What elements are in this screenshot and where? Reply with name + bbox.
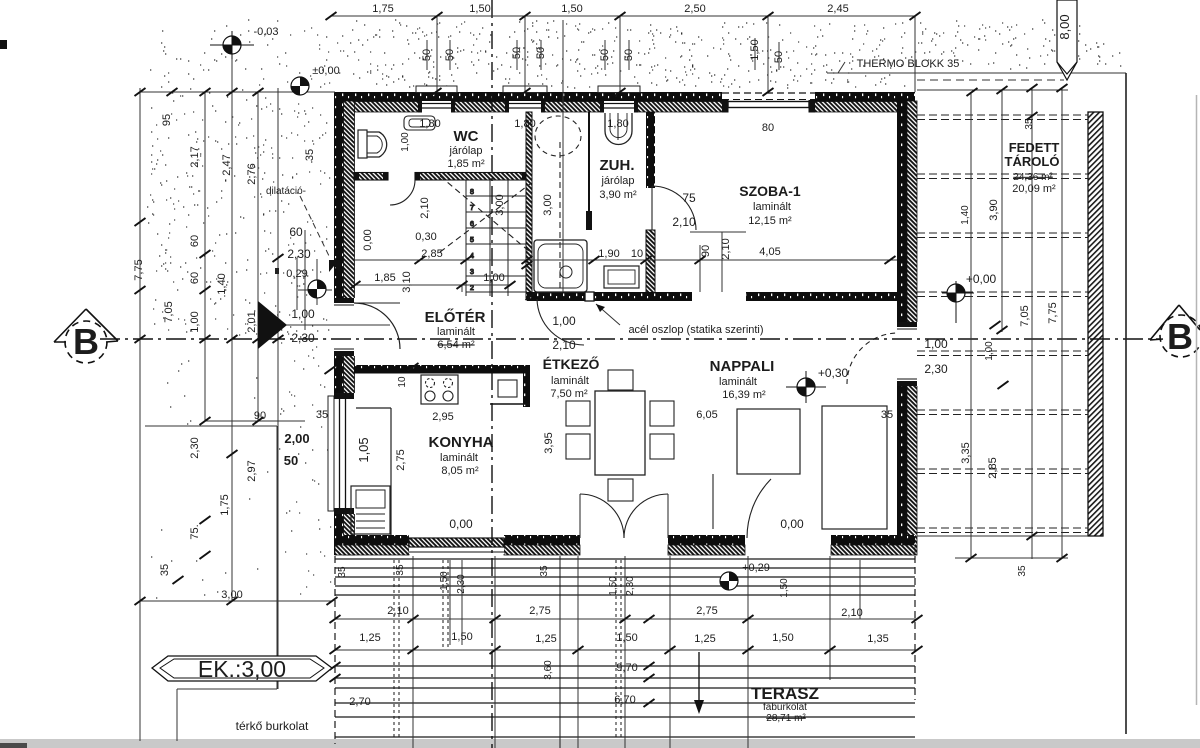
dining table (595, 391, 645, 475)
section axis B-B dash-dot (100, 338, 1160, 340)
svg-text:1,50: 1,50 (451, 631, 472, 643)
big entrance triangle (258, 301, 287, 349)
svg-text:1,85: 1,85 (374, 272, 395, 284)
storage pillar right hatched (1088, 112, 1103, 536)
storage joist dashed double lines (917, 115, 1088, 533)
svg-text:2,75: 2,75 (529, 605, 550, 617)
kitchen window left wall (328, 393, 355, 514)
svg-text:0,00: 0,00 (780, 517, 804, 531)
window W5 bottom wall (parapet) (409, 536, 504, 554)
svg-text:2,70: 2,70 (349, 696, 370, 708)
svg-text:8,00: 8,00 (1057, 14, 1072, 39)
svg-text:35: 35 (1017, 565, 1028, 577)
svg-text:1,00: 1,00 (400, 132, 411, 152)
small 50 dims witness (426, 40, 428, 70)
wall: right exterior (897, 92, 907, 555)
svg-text:7,05: 7,05 (1019, 305, 1031, 326)
ZUH washbasin top (605, 113, 632, 145)
svg-text:2,97: 2,97 (246, 460, 258, 481)
svg-text:-0,03: -0,03 (253, 26, 278, 38)
svg-text:1,50: 1,50 (439, 571, 450, 591)
svg-text:35: 35 (304, 149, 316, 161)
storage top/bottom edge (827, 72, 1126, 74)
tick marks (135, 12, 1068, 707)
svg-text:acél oszlop (statika szerinti): acél oszlop (statika szerinti) (628, 324, 763, 336)
svg-text:28,71 m²: 28,71 m² (766, 713, 806, 724)
svg-text:35: 35 (539, 565, 550, 577)
left step boundary (145, 425, 277, 427)
svg-text:1,50: 1,50 (561, 3, 582, 15)
svg-text:9,70: 9,70 (616, 662, 637, 674)
svg-text:8: 8 (470, 189, 474, 196)
svg-text:2,30: 2,30 (287, 247, 311, 261)
svg-text:50: 50 (599, 49, 611, 61)
svg-text:+0,00: +0,00 (966, 272, 997, 286)
window W2 top wall (503, 86, 547, 113)
svg-text:0,00: 0,00 (449, 517, 473, 531)
svg-text:járólap: járólap (448, 145, 482, 157)
left edge black tick (0, 40, 7, 49)
svg-text:1,00: 1,00 (189, 311, 201, 332)
svg-text:THERMO BLOKK 35: THERMO BLOKK 35 (857, 58, 960, 70)
stair treads (466, 180, 526, 296)
svg-text:EK.:3,00: EK.:3,00 (198, 656, 286, 682)
terrace witness verticals (412, 556, 414, 748)
svg-text:4,05: 4,05 (759, 246, 780, 258)
svg-text:2,45: 2,45 (827, 3, 848, 15)
interior wall: WC right / stair enclosure x526 (526, 112, 532, 298)
svg-text:2,30: 2,30 (456, 574, 467, 594)
entrance door leaf+arc (354, 303, 400, 349)
svg-text:térkő burkolat: térkő burkolat (236, 719, 309, 733)
svg-text:1,05: 1,05 (356, 437, 371, 462)
svg-text:B: B (73, 321, 99, 362)
door W7 arc (747, 479, 771, 538)
svg-text:2,50: 2,50 (684, 3, 705, 15)
svg-text:75.: 75. (189, 524, 201, 539)
svg-text:12,15 m²: 12,15 m² (748, 215, 792, 227)
svg-text:1,00: 1,00 (483, 272, 504, 284)
svg-text:1,40: 1,40 (960, 205, 971, 225)
svg-text:20,09 m²: 20,09 m² (1012, 183, 1056, 195)
top-left horizontal dim (140, 91, 335, 93)
svg-text:0,29: 0,29 (286, 268, 307, 280)
svg-text:laminált: laminált (551, 375, 589, 387)
svg-text:35: 35 (395, 564, 406, 576)
svg-text:90: 90 (700, 245, 712, 257)
svg-text:2,30: 2,30 (625, 576, 636, 596)
thermo blokk leader (838, 62, 845, 73)
kitchen counter edge (390, 408, 392, 535)
svg-text:1,35: 1,35 (867, 633, 888, 645)
svg-text:faburkolat: faburkolat (763, 702, 807, 713)
right door dashed swing arc (847, 333, 898, 384)
svg-text:2,01: 2,01 (246, 311, 258, 332)
svg-text:3,90 m²: 3,90 m² (599, 189, 637, 201)
svg-text:ÉTKEZŐ: ÉTKEZŐ (543, 355, 600, 372)
FEDETT TAROLO structure (917, 112, 1103, 536)
svg-text:2,30: 2,30 (291, 331, 315, 345)
B symbol right (1150, 305, 1200, 357)
bottom-left dark watermark (0, 743, 27, 748)
svg-text:3,95: 3,95 (543, 432, 555, 453)
svg-text:80: 80 (762, 122, 774, 134)
svg-text:2,10: 2,10 (387, 605, 408, 617)
terrace boundary dashed verticals (334, 556, 336, 744)
svg-text:7,05: 7,05 (163, 301, 175, 322)
interior wall: hall/nappali south wall y292 (527, 292, 897, 301)
level markers (210, 31, 974, 590)
svg-text:95: 95 (161, 114, 173, 126)
svg-text:NAPPALI: NAPPALI (710, 358, 775, 375)
svg-text:2,85: 2,85 (421, 248, 442, 260)
entrance witness (296, 258, 298, 310)
right side dimension verticals (827, 73, 1126, 734)
svg-text:2,75: 2,75 (395, 449, 407, 470)
interior wall: ZUH left partition (588, 112, 590, 230)
wall: top exterior black course (335, 92, 915, 102)
door 75/2,10 leaf+arc into SZOBA-1 (651, 186, 653, 230)
svg-text:3,90: 3,90 (988, 199, 1000, 220)
terrace deck lines (335, 556, 915, 748)
svg-text:16,39 m²: 16,39 m² (722, 389, 766, 401)
svg-text:KONYHA: KONYHA (428, 434, 493, 451)
svg-text:1,25: 1,25 (359, 632, 380, 644)
svg-text:1,80: 1,80 (419, 118, 440, 130)
hall/shower door arc (537, 299, 584, 345)
entrance door opening left wall (333, 298, 355, 356)
steel column (585, 292, 594, 301)
nappali sofa (822, 406, 887, 529)
svg-text:1,00: 1,00 (924, 337, 948, 351)
svg-text:2,76: 2,76 (246, 163, 258, 184)
svg-text:laminált: laminált (753, 201, 791, 213)
svg-text:50: 50 (444, 49, 456, 61)
WC toilet (358, 130, 367, 158)
room labels (198, 58, 1060, 733)
interior dim lines (335, 232, 917, 748)
svg-text:35: 35 (316, 409, 328, 421)
dashed overhead line (559, 142, 561, 290)
MAIN CONTENT (328, 86, 918, 555)
svg-text:1,25: 1,25 (535, 633, 556, 645)
interior wall: WC/stair south wall y172 (354, 173, 527, 181)
interior wall stub konyha/etkezo x524 (523, 373, 530, 407)
WC door arc (390, 180, 415, 205)
svg-text:+0,30: +0,30 (818, 366, 849, 380)
nappali cabinet (737, 409, 800, 474)
svg-text:2,75: 2,75 (696, 605, 717, 617)
chairs (566, 401, 590, 426)
90 dim (205, 420, 305, 422)
left dimension verticals (140, 45, 390, 741)
svg-text:1,50: 1,50 (608, 576, 619, 596)
svg-text:50: 50 (535, 47, 547, 59)
svg-text:2,10: 2,10 (720, 238, 732, 259)
svg-text:24,36 m²: 24,36 m² (1013, 172, 1053, 183)
top dimension line (331, 16, 916, 292)
svg-text:50: 50 (623, 49, 635, 61)
svg-text:35: 35 (159, 564, 171, 576)
EK banner (152, 656, 332, 681)
svg-text:6,05: 6,05 (696, 409, 717, 421)
svg-text:1,85 m²: 1,85 m² (447, 158, 485, 170)
svg-text:2,85: 2,85 (987, 457, 999, 478)
svg-text:1,00: 1,00 (552, 314, 576, 328)
H box (498, 380, 517, 397)
property line right (1125, 73, 1127, 734)
window W3 top wall (598, 86, 640, 113)
svg-text:10: 10 (631, 248, 643, 260)
svg-text:6,54 m²: 6,54 m² (437, 339, 475, 351)
svg-text:2,95: 2,95 (432, 411, 453, 423)
svg-text:3,35: 3,35 (960, 442, 972, 463)
svg-text:5: 5 (470, 237, 474, 244)
fixtures and furniture (351, 113, 887, 535)
svg-text:laminált: laminált (719, 376, 757, 388)
window W1 top wall (416, 86, 457, 113)
svg-text:2,10: 2,10 (672, 215, 696, 229)
svg-text:50: 50 (284, 453, 298, 468)
svg-text:1,40: 1,40 (216, 273, 228, 294)
slope arrow (698, 652, 700, 708)
svg-text:2,30: 2,30 (189, 437, 201, 458)
svg-text:2,10: 2,10 (841, 607, 862, 619)
svg-text:0,30: 0,30 (415, 231, 436, 243)
svg-text:7: 7 (470, 205, 474, 212)
dilatacio leader (300, 196, 330, 258)
svg-text:±0,00: ±0,00 (312, 65, 339, 77)
wall: left exterior hatch course (344, 101, 355, 555)
ZUH cabinet bottom (604, 266, 639, 288)
svg-text:1,50: 1,50 (749, 39, 761, 60)
rotated dimension texts (133, 14, 1072, 679)
svg-text:6,70: 6,70 (614, 694, 635, 706)
kitchen stove (421, 375, 458, 404)
svg-text:WC: WC (454, 128, 479, 145)
svg-text:10: 10 (397, 376, 408, 388)
3,00 dim line (140, 600, 332, 602)
B symbol left (54, 309, 118, 363)
svg-text:1,00: 1,00 (984, 341, 995, 361)
svg-text:2,10: 2,10 (419, 197, 431, 218)
right wall door opening 1,00/2,30 (896, 322, 918, 386)
svg-text:7,75: 7,75 (1047, 302, 1059, 323)
svg-text:3,00: 3,00 (542, 194, 554, 215)
svg-text:3,00: 3,00 (221, 589, 242, 601)
interior wall: ZUH/SZOBA-1 x646 (646, 112, 655, 188)
dashed circle (stair well) (535, 116, 581, 156)
wall: bottom exterior (335, 535, 409, 545)
slope arrow 8,00 top right (1057, 0, 1077, 80)
window W4 top wall wide opening (722, 92, 815, 113)
svg-text:2,10: 2,10 (552, 338, 576, 352)
svg-text:35: 35 (1024, 118, 1035, 130)
svg-text:75: 75 (682, 191, 696, 205)
svg-text:laminált: laminált (437, 326, 475, 338)
svg-text:ELŐTÉR: ELŐTÉR (425, 308, 486, 326)
svg-text:90: 90 (254, 410, 266, 422)
svg-text:1,75: 1,75 (219, 494, 231, 515)
svg-text:járólap: járólap (600, 175, 634, 187)
bottom gray band (0, 739, 1200, 748)
terrace dim rows (335, 618, 917, 620)
svg-text:B: B (1167, 316, 1193, 357)
svg-text:2,30: 2,30 (924, 362, 948, 376)
svg-text:35: 35 (337, 566, 348, 578)
svg-text:8,05 m²: 8,05 m² (441, 465, 479, 477)
svg-text:FEDETT: FEDETT (1009, 140, 1060, 155)
wall: top exterior hatch course (335, 102, 915, 113)
svg-text:TERASZ: TERASZ (751, 684, 819, 703)
svg-text:3: 3 (470, 269, 474, 276)
interior wall: eloter/konyha y365 (354, 365, 530, 374)
svg-text:3,10: 3,10 (401, 271, 413, 292)
svg-text:2,17: 2,17 (189, 146, 201, 167)
svg-text:35: 35 (881, 409, 893, 421)
vertical grid axis x492 (491, 0, 493, 748)
svg-text:50: 50 (773, 51, 785, 63)
svg-text:60: 60 (189, 235, 201, 247)
svg-text:7,50 m²: 7,50 m² (550, 388, 588, 400)
dimension texts horizontal (221, 3, 996, 708)
WC washbasin (404, 116, 435, 130)
shower tray (534, 240, 587, 292)
svg-text:2,00: 2,00 (284, 431, 309, 446)
svg-text:1,50: 1,50 (616, 632, 637, 644)
svg-text:+0,29: +0,29 (742, 562, 770, 574)
svg-text:60: 60 (189, 272, 201, 284)
svg-text:7,75: 7,75 (133, 259, 145, 280)
acel oszlop leader (596, 304, 620, 325)
svg-text:3,60: 3,60 (543, 660, 554, 680)
svg-text:60: 60 (289, 225, 303, 239)
wall: left exterior black course (334, 92, 344, 555)
svg-text:2,47: 2,47 (221, 154, 233, 175)
kitchen sink unit (351, 486, 390, 534)
svg-text:SZOBA-1: SZOBA-1 (739, 183, 801, 199)
dilatacio wedge on left wall (329, 260, 340, 272)
stipple texture (147, 20, 1121, 598)
svg-text:0,00: 0,00 (362, 229, 374, 250)
svg-text:dilatáció-: dilatáció- (266, 186, 306, 197)
svg-text:1,50: 1,50 (772, 632, 793, 644)
terrace double door W6 arcs (580, 494, 624, 538)
svg-text:50: 50 (421, 49, 433, 61)
svg-text:1,25: 1,25 (694, 633, 715, 645)
svg-text:2: 2 (470, 285, 474, 292)
svg-text:50: 50 (511, 47, 523, 59)
svg-text:1,50: 1,50 (469, 3, 490, 15)
stair diagonal guide lines (440, 176, 530, 252)
svg-text:1,50: 1,50 (779, 578, 790, 598)
svg-text:1,90: 1,90 (598, 248, 619, 260)
svg-text:1,75: 1,75 (372, 3, 393, 15)
svg-text:ZUH.: ZUH. (600, 157, 635, 174)
svg-text:1,80: 1,80 (514, 118, 535, 130)
svg-text:1,00: 1,00 (291, 307, 315, 321)
svg-text:TÁROLÓ: TÁROLÓ (1005, 154, 1060, 169)
svg-text:1,80: 1,80 (607, 118, 628, 130)
svg-text:laminált: laminált (440, 452, 478, 464)
svg-text:3,00: 3,00 (494, 194, 506, 215)
